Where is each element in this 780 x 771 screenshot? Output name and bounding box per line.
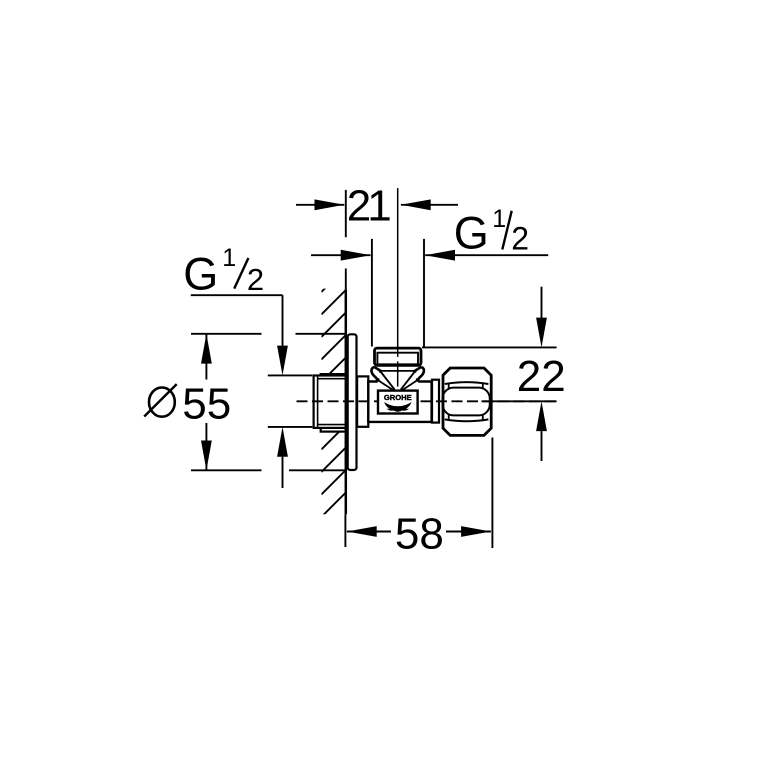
dimension 22 down arrow: [536, 318, 547, 348]
G1/2 left up arrow: [277, 427, 288, 457]
bonnet cap inner line: [377, 353, 418, 365]
diameter 55 extension top left: [191, 333, 262, 335]
dimension 58 arrow right: [461, 526, 491, 537]
dimension 22 extension bottom (solid over centerline): [482, 400, 557, 402]
funnel fan line left outer: [377, 380, 393, 391]
G1/2 left up arrow stem: [282, 457, 284, 488]
nut middle facet: [443, 388, 490, 416]
svg-text:55: 55: [182, 380, 231, 429]
male thread collar: [321, 374, 347, 432]
diameter 55 down arrow: [201, 441, 212, 471]
svg-text:58: 58: [395, 509, 444, 558]
wall lower extension line (dim 58): [344, 514, 346, 547]
body flange: [357, 376, 368, 426]
escutcheon plate: [348, 334, 357, 470]
bonnet skirt rim side right: [415, 367, 422, 371]
svg-text:2: 2: [511, 221, 529, 257]
dimension G1/2 top arrow left: [341, 250, 371, 261]
dimension 22 extension top: [422, 346, 557, 348]
funnel shoulder knot left: [376, 378, 380, 382]
dimension 21 line left: [296, 204, 344, 206]
dimension 58 arrow left: [347, 526, 377, 537]
diameter 55 extension top right: [296, 333, 346, 335]
svg-text:21: 21: [347, 182, 390, 231]
dimension 22 stem lower: [541, 431, 543, 461]
dimension 58 right extension: [491, 438, 493, 549]
G1/2 left thread extension bottom: [268, 426, 313, 428]
funnel node knot right: [413, 370, 416, 373]
funnel fan line left inner: [381, 372, 395, 390]
GROHE swoosh: [384, 402, 411, 412]
compression nut outline: [443, 368, 491, 435]
thread root line bottom: [318, 424, 347, 426]
funnel shoulder knot right: [416, 378, 420, 382]
dimension 22 stem upper: [541, 287, 543, 318]
vertical centerline lower segment: [397, 361, 399, 386]
svg-text:1: 1: [222, 244, 236, 272]
funnel fan line right inner: [401, 372, 415, 390]
svg-text:1: 1: [492, 205, 506, 233]
svg-text:22: 22: [517, 352, 566, 401]
funnel fan line right outer: [402, 380, 418, 391]
svg-text:GROHE: GROHE: [384, 393, 412, 402]
vertical centerline top port: [397, 188, 399, 357]
valve body: [368, 382, 431, 422]
svg-text:G: G: [454, 208, 489, 259]
dimension 21 arrow right: [401, 199, 431, 210]
thread chamfer line: [317, 377, 319, 427]
svg-text:G: G: [183, 249, 218, 300]
wall upper extension line segment 2: [345, 269, 347, 290]
diameter 55 extension bottom right: [289, 469, 346, 471]
diameter 55 dim line upper: [205, 334, 207, 380]
dimension 21 line right: [401, 204, 458, 206]
wall upper extension line (dim 21): [345, 190, 347, 237]
diameter 55 extension bottom left: [191, 469, 262, 471]
dimension 58 line left: [347, 531, 391, 533]
G1/2 left down arrow: [277, 346, 288, 376]
male thread G1/2 into wall: [314, 376, 347, 428]
G1/2 left thread extension top: [268, 374, 313, 376]
bonnet skirt ear right: [418, 367, 424, 381]
wall face edge: [345, 289, 348, 514]
outlet connector ring: [432, 380, 439, 423]
diameter 55 up arrow: [201, 334, 212, 364]
diameter 55 dim line lower: [205, 423, 207, 470]
dimension G1/2 top line left: [311, 254, 371, 256]
dimension 21 arrow left: [315, 199, 345, 210]
dimension 58 line right: [446, 531, 491, 533]
wall hatching: [321, 268, 345, 540]
dimension 22 up arrow: [536, 401, 547, 431]
extension line top thread left: [371, 239, 373, 347]
nut bottom facet arc: [445, 419, 489, 421]
svg-text:2: 2: [247, 262, 264, 297]
extension line top thread right: [423, 239, 425, 347]
funnel node knot left: [379, 370, 382, 373]
bonnet skirt ear left: [371, 367, 377, 381]
leader line under G1/2 left: [191, 294, 283, 296]
nut band edge lines: [449, 384, 483, 420]
GROHE logo plate: [378, 391, 418, 414]
dimension G1/2 top arrow right: [425, 250, 455, 261]
diameter symbol: [149, 388, 175, 417]
horizontal centerline (dashed): [297, 400, 558, 402]
leader vertical G1/2 left: [282, 295, 284, 347]
thread root line top: [318, 378, 347, 380]
bonnet skirt rim bottom edge: [381, 370, 415, 372]
nut top facet arc: [445, 382, 489, 384]
dimension G1/2 top line right: [425, 254, 548, 256]
bonnet cap: [375, 348, 422, 365]
bonnet skirt rim side left: [374, 367, 381, 371]
